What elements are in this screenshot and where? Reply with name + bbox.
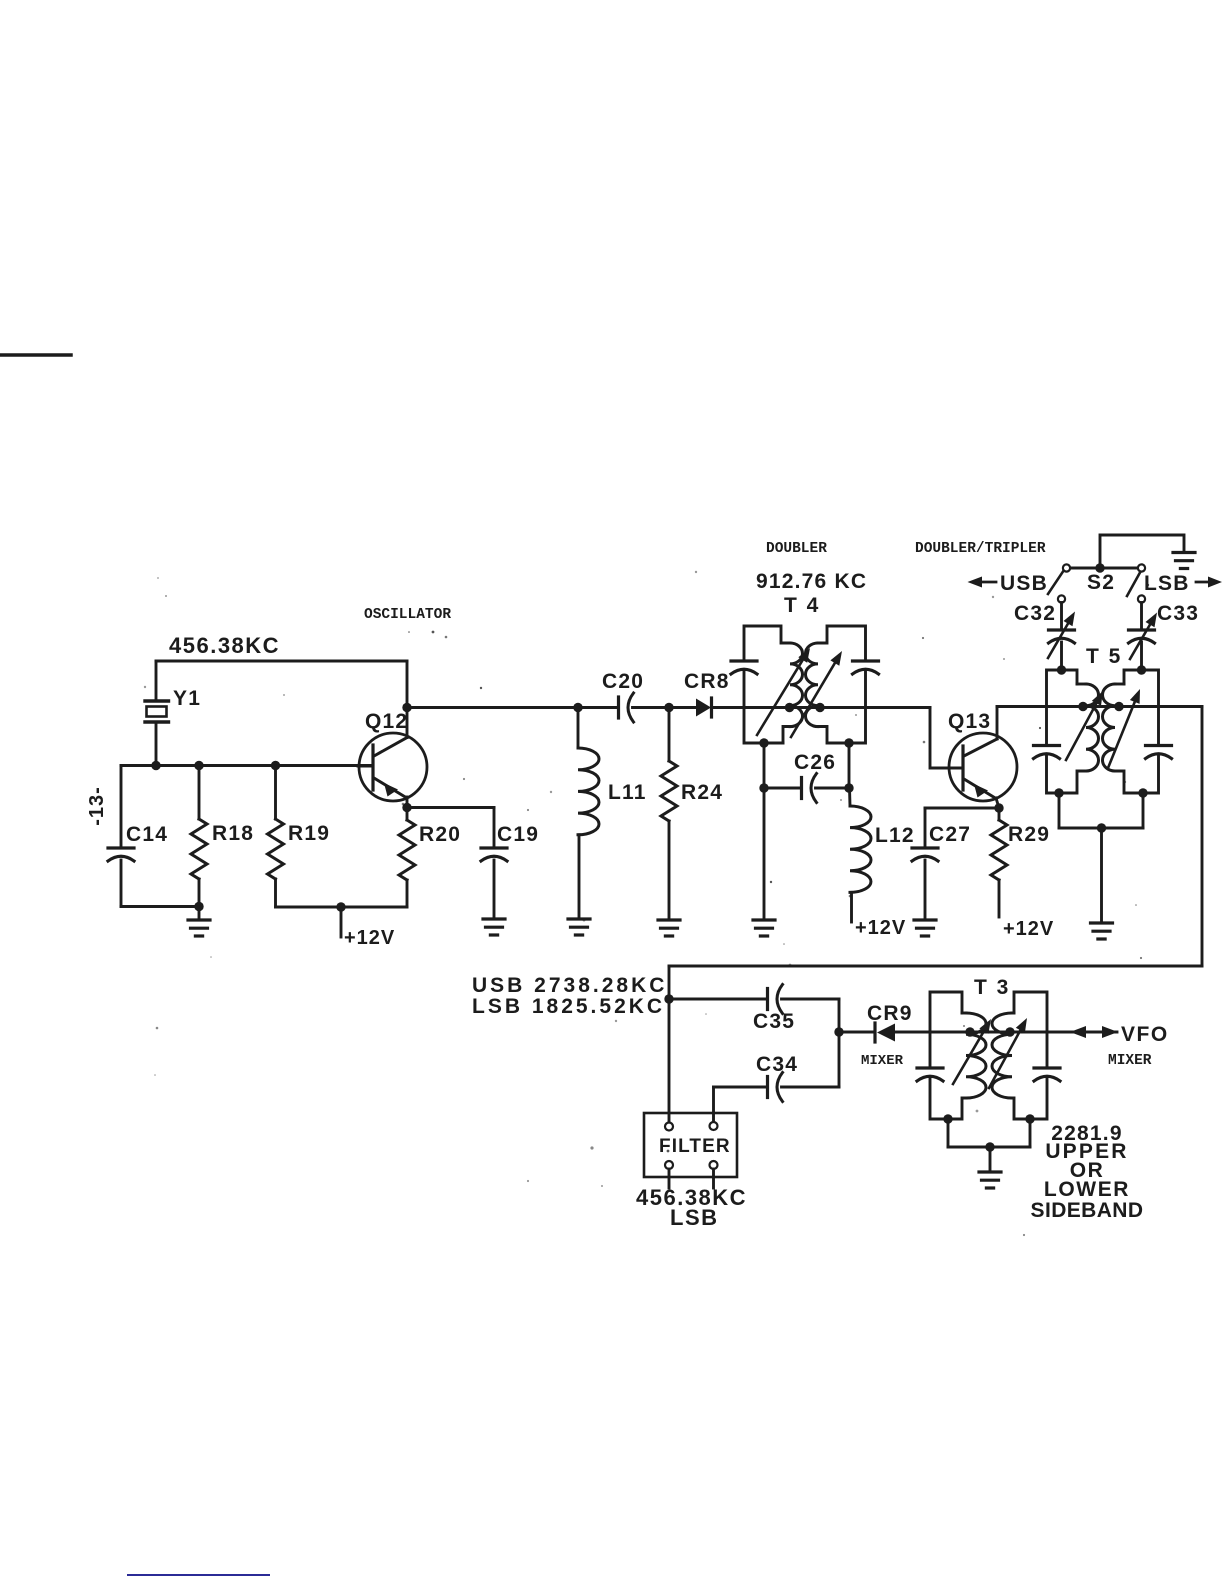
inductor L11 (578, 748, 599, 835)
switch S2 lever right (1127, 573, 1140, 597)
label DOUBLER/TRIPLER (915, 541, 1046, 557)
wire: C34 to filter (712, 1087, 715, 1121)
svg-text:T 3: T 3 (974, 976, 1010, 999)
svg-text:+12V: +12V (1003, 918, 1054, 940)
power +12V (doubler) (855, 917, 906, 939)
switch S2 terminal lower-left (1058, 595, 1065, 602)
node: collector/output junction (402, 703, 411, 712)
value label 456.38KC (crystal) (169, 633, 280, 658)
node: +12V junction (336, 902, 345, 911)
label C33 (1157, 602, 1199, 625)
capacitor (T5 primary internal) (1034, 746, 1060, 759)
label Q12 (365, 710, 408, 733)
svg-text:L12: L12 (875, 824, 915, 847)
wire: C35 to CR9 drop (838, 999, 841, 1032)
inductor T3 primary winding (966, 1013, 986, 1098)
wire: T4 bottom-right to C26 (848, 743, 851, 788)
diode CR9 (875, 1023, 895, 1042)
svg-text:SIDEBAND: SIDEBAND (1031, 1199, 1144, 1222)
svg-text:-13-: -13- (86, 786, 108, 826)
label C35 (753, 1010, 795, 1033)
capacitor (T4 primary internal) (731, 661, 757, 674)
node: T5 top-left junction (1057, 665, 1066, 674)
wire: Q13 collector riser (996, 707, 999, 740)
wire: CR9 anode lead (839, 1031, 874, 1034)
inductor T4 secondary winding (805, 643, 818, 727)
node: T5 secondary tap (1114, 702, 1123, 711)
wire: C14 bottom lead (120, 860, 123, 907)
wire: L12 top lead (848, 788, 851, 806)
label DOUBLER (766, 541, 827, 557)
page number -13- (86, 786, 108, 826)
svg-text:L11: L11 (608, 781, 647, 804)
svg-text:C20: C20 (602, 670, 644, 693)
transformer T4 right outline (818, 626, 866, 743)
svg-text:R19: R19 (288, 822, 330, 845)
inductor T4 primary winding (790, 643, 803, 727)
wire: C27 top lead (924, 808, 927, 847)
resistor R19 (268, 819, 284, 879)
capacitor (T3 secondary internal) (1034, 1068, 1060, 1081)
ground under T5 (1091, 923, 1113, 939)
wire: T3 bottom-left lead (947, 1119, 950, 1147)
label FILTER (659, 1136, 731, 1157)
ground under L11 (568, 919, 590, 935)
label LSB (1144, 572, 1190, 595)
wire: mixer line through T3 (895, 1031, 1117, 1034)
wire: C32 bottom lead (1060, 642, 1063, 670)
wire: R20 top lead (406, 808, 409, 821)
label C34 (756, 1053, 798, 1076)
capacitor C34 (768, 1073, 783, 1102)
label LSB 1825.52KC (472, 995, 665, 1018)
label T5 (1086, 645, 1122, 668)
svg-text:456.38KC: 456.38KC (169, 633, 280, 658)
label MIXER (VFO) (1108, 1053, 1152, 1069)
T4 slug arrow 2 (791, 651, 842, 737)
wire: R24 top lead (668, 708, 671, 762)
node: R24 junction (664, 703, 673, 712)
wire: S2 strap bracket (1100, 535, 1184, 568)
svg-text:VFO: VFO (1121, 1023, 1169, 1046)
node: R18 bottom junction (194, 902, 203, 911)
label USB (1000, 572, 1048, 595)
switch S2 lever left (1048, 572, 1063, 595)
label Q13 (948, 710, 991, 733)
capacitor C19 (481, 848, 507, 861)
node: emitter junction (402, 803, 411, 812)
node: T3 primary tap (965, 1027, 974, 1036)
resistor R29 (991, 820, 1007, 880)
svg-text:USB 2738.28KC: USB 2738.28KC (472, 974, 667, 997)
wire: C35 right segment (782, 998, 840, 1001)
label USB 2738.28KC (472, 974, 667, 997)
inductor T3 secondary winding (992, 1013, 1012, 1098)
wire: C26 left segment (764, 787, 800, 790)
wire: crystal bottom lead (155, 724, 158, 765)
wire: bottom rail (669, 965, 1202, 968)
wire: C34 left segment (714, 1086, 767, 1089)
svg-text:CR8: CR8 (684, 670, 730, 693)
label C27 (929, 823, 971, 846)
capacitor C26 (802, 774, 817, 803)
svg-text:DOUBLER: DOUBLER (766, 541, 827, 557)
svg-text:T 5: T 5 (1086, 645, 1122, 668)
transformer T5 right outline (1115, 670, 1159, 793)
capacitor (T3 primary internal) (917, 1068, 943, 1081)
node: T4 bottom-left junction (759, 738, 768, 747)
wire: R18 top lead (198, 766, 201, 820)
wire: R29 bottom lead (998, 880, 1001, 917)
ground under T4 (753, 920, 775, 936)
label S2 (1087, 571, 1115, 594)
label L12 (875, 824, 915, 847)
svg-text:R20: R20 (419, 823, 461, 846)
trimmer capacitor C33 (1129, 630, 1155, 643)
capacitor C14 (108, 848, 134, 861)
label C14 (126, 823, 168, 846)
wire: T3 ground lead (989, 1147, 992, 1171)
wire: T3 bottom bar (948, 1146, 1030, 1149)
svg-text:C19: C19 (497, 823, 539, 846)
svg-text:OSCILLATOR: OSCILLATOR (364, 607, 451, 623)
svg-text:CR9: CR9 (867, 1002, 913, 1025)
wire: C34 riser (838, 1032, 841, 1087)
filter terminal bottom-right (710, 1161, 718, 1188)
svg-text:+12V: +12V (344, 927, 395, 949)
svg-text:MIXER: MIXER (1108, 1053, 1152, 1069)
wire: C27 bottom lead (924, 860, 927, 919)
node: T3 ground junction (985, 1142, 994, 1151)
node: R18 top junction (194, 761, 203, 770)
wire: C35 left segment (669, 998, 766, 1001)
ground under T3 (979, 1172, 1001, 1188)
inductor T5 primary winding (1086, 684, 1099, 771)
svg-text:FILTER: FILTER (659, 1136, 731, 1157)
svg-text:Y1: Y1 (173, 687, 201, 710)
svg-text:912.76 KC: 912.76 KC (756, 570, 867, 593)
svg-text:C27: C27 (929, 823, 971, 846)
svg-text:C35: C35 (753, 1010, 795, 1033)
capacitor C20 (619, 693, 634, 722)
wire: S2 common bar (1069, 567, 1139, 570)
label L11 (608, 781, 647, 804)
svg-text:R24: R24 (681, 781, 723, 804)
wire: right-edge drop (1201, 707, 1204, 967)
wire: C26 right segment (816, 787, 850, 790)
diode CR8 (696, 698, 712, 717)
capacitor (T5 secondary internal) (1146, 746, 1172, 759)
node: T5 ground junction (1097, 823, 1106, 832)
switch S2 terminal upper-left (1063, 564, 1070, 571)
wire: bottom rail right (R19-R20) (276, 906, 408, 909)
switch S2 terminal lower-right (1138, 595, 1145, 602)
transistor Q13 (949, 733, 1017, 801)
wire: bottom rail left drop (668, 966, 671, 999)
wire: C33 top lead (1140, 603, 1143, 630)
filter terminal bottom-left (665, 1161, 673, 1188)
node: S2 common junction (1095, 563, 1104, 572)
svg-text:USB: USB (1000, 572, 1048, 595)
wire: R20 bottom lead (406, 880, 409, 907)
svg-text:C33: C33 (1157, 602, 1199, 625)
label OSCILLATOR (364, 607, 451, 623)
svg-text:Q12: Q12 (365, 710, 408, 733)
label LSB (filter) (670, 1205, 719, 1230)
wire: C19 top lead (493, 808, 496, 848)
filter terminal top-right (710, 1122, 718, 1130)
label C19 (497, 823, 539, 846)
svg-text:C14: C14 (126, 823, 168, 846)
node: crystal/base-rail junction (151, 761, 160, 770)
svg-text:R18: R18 (212, 822, 254, 845)
transformer T4 left outline (744, 626, 790, 743)
node: CR9 junction (834, 1027, 843, 1036)
T3 slug arrow 2 (989, 1018, 1027, 1088)
node: T3 bottom-right junction (1025, 1114, 1034, 1123)
wire: emitter to C27 (925, 807, 999, 810)
wire: R18 bottom lead (198, 879, 201, 907)
resistor R18 (191, 819, 207, 879)
wire: T3 bottom-right lead (1029, 1119, 1032, 1147)
node: T5 bottom-left junction (1054, 788, 1063, 797)
T5 slug arrow 2 (1108, 689, 1140, 768)
scan artifact line top-left (0, 353, 71, 357)
node: filter input junction (664, 994, 673, 1003)
label MIXER (CR9) (861, 1053, 904, 1069)
label R24 (681, 781, 723, 804)
wire: CR8 to Q13 base drop (712, 706, 931, 709)
arrow LSB out (1196, 577, 1222, 588)
node: T4 bottom-right junction (844, 738, 853, 747)
ground at S2 strap (1173, 553, 1195, 569)
wire: T5 ground lead (1100, 828, 1103, 922)
trimmer capacitor C32 (1049, 630, 1075, 643)
svg-text:C34: C34 (756, 1053, 798, 1076)
label C26 (794, 751, 836, 774)
node: T5 top-right junction (1137, 665, 1146, 674)
T5 slug arrow 1 (1066, 691, 1103, 760)
wire: L11 bottom lead (578, 835, 581, 918)
T4 slug arrow 1 (757, 648, 810, 735)
wire: Q13 emitter lead (996, 798, 999, 808)
switch S2 terminal upper-right (1138, 564, 1145, 571)
label C20 (602, 670, 644, 693)
label R18 (212, 822, 254, 845)
label R29 (1008, 823, 1050, 846)
label CR9 (867, 1002, 913, 1025)
wire: R24 bottom lead (668, 821, 671, 919)
wire: C19 bottom lead (493, 860, 496, 918)
C33 adjust arrow (1130, 613, 1157, 660)
wire: T5 bottom-right lead (1142, 793, 1145, 828)
label T3 (974, 976, 1010, 999)
crystal Y1 (145, 701, 169, 722)
svg-text:DOUBLER/TRIPLER: DOUBLER/TRIPLER (915, 541, 1046, 557)
svg-text:R29: R29 (1008, 823, 1050, 846)
resistor R20 (399, 820, 415, 880)
node: L11 junction (573, 703, 582, 712)
ground under C27 (914, 920, 936, 936)
C32 adjust arrow (1048, 612, 1075, 659)
capacitor C27 (912, 848, 938, 861)
node: T3 bottom-left junction (943, 1114, 952, 1123)
transformer T3 right outline (1012, 992, 1047, 1119)
filter FL1 box (644, 1113, 737, 1177)
label T4 (784, 594, 820, 617)
wire: L11 top lead (577, 708, 580, 749)
node: T3 secondary tap (1005, 1027, 1014, 1036)
label Y1 (173, 687, 201, 710)
svg-text:LSB: LSB (1144, 572, 1190, 595)
ground under C19 (483, 919, 505, 935)
svg-text:+12V: +12V (855, 917, 906, 939)
wire: C33 bottom lead (1140, 642, 1143, 670)
svg-text:LSB: LSB (670, 1205, 719, 1230)
arrow VFO bidirectional (1070, 1026, 1118, 1038)
svg-text:MIXER: MIXER (861, 1053, 904, 1069)
wire: crystal top lead (155, 661, 158, 700)
svg-text:LOWER: LOWER (1044, 1178, 1130, 1201)
transformer T5 left outline (1047, 670, 1087, 793)
node: T5 bottom-right junction (1138, 788, 1147, 797)
wire: base rail (121, 764, 371, 767)
T3 slug arrow 1 (953, 1019, 991, 1084)
wire: T5 bottom-left lead (1058, 793, 1061, 828)
wire: R19 bottom lead (274, 879, 277, 907)
label CR8 (684, 670, 730, 693)
wire: Q13 base drop (930, 708, 961, 769)
node: T4 primary tap (785, 703, 794, 712)
transformer T3 left outline (930, 992, 966, 1119)
node: Q13 emitter junction (994, 803, 1003, 812)
node: T5 primary tap (1078, 702, 1087, 711)
label C32 (1014, 602, 1056, 625)
scan artifact blue line bottom (127, 1574, 270, 1576)
inductor L12 (850, 806, 871, 892)
svg-text:T 4: T 4 (784, 594, 820, 617)
wire: main line Q13 collector to right (997, 705, 1202, 708)
value label 912.76 KC (756, 570, 867, 593)
power +12V (doubler/tripler) (1003, 918, 1054, 940)
resistor R24 (661, 761, 677, 821)
label R19 (288, 822, 330, 845)
transistor Q12 (358, 733, 427, 801)
wire: feedback top rail (156, 660, 407, 663)
wire: C34 right segment (782, 1086, 840, 1089)
wire: T5 bottom bar (1059, 827, 1143, 830)
wire: R19 top lead (274, 766, 277, 820)
wire: T4 bottom-left to C26 (763, 743, 766, 788)
wire: main line Q12 collector to C20 (407, 706, 617, 709)
svg-text:C32: C32 (1014, 602, 1056, 625)
node: C26 right junction (844, 783, 853, 792)
wire: L12 bottom lead (850, 892, 853, 922)
capacitor (T4 secondary internal) (853, 661, 879, 674)
label R20 (419, 823, 461, 846)
node: C26 left junction (759, 783, 768, 792)
svg-text:C26: C26 (794, 751, 836, 774)
filter terminal top-left (665, 1123, 673, 1131)
wire: C14 top lead (120, 766, 123, 848)
wire: bottom rail left (C14-R18) (121, 905, 199, 908)
capacitor C35 (768, 985, 783, 1014)
value label 456.38KC (filter) (636, 1185, 747, 1210)
arrow USB out (968, 577, 997, 588)
ground under R18 (188, 907, 210, 937)
wire: R29 top lead (998, 808, 1001, 820)
wire: Q12 collector riser (406, 661, 409, 738)
wire: T4 ground lead (763, 788, 766, 919)
wire: C20 to CR8 (633, 706, 697, 709)
wire: C32 top lead (1060, 603, 1063, 630)
svg-text:Q13: Q13 (948, 710, 991, 733)
value label 2281.9 block (1031, 1122, 1144, 1222)
inductor T5 secondary winding (1103, 684, 1116, 771)
wire: filter input lead (668, 999, 671, 1122)
power +12V (oscillator) (341, 907, 395, 949)
wire: emitter to C19 (407, 806, 494, 809)
ground under R24 (658, 920, 680, 936)
wire: Q12 emitter lead (406, 797, 409, 808)
node: T4 secondary tap (815, 703, 824, 712)
node: R19 top junction (271, 761, 280, 770)
svg-text:LSB 1825.52KC: LSB 1825.52KC (472, 995, 665, 1018)
svg-text:S2: S2 (1087, 571, 1115, 594)
label VFO (1121, 1023, 1169, 1046)
